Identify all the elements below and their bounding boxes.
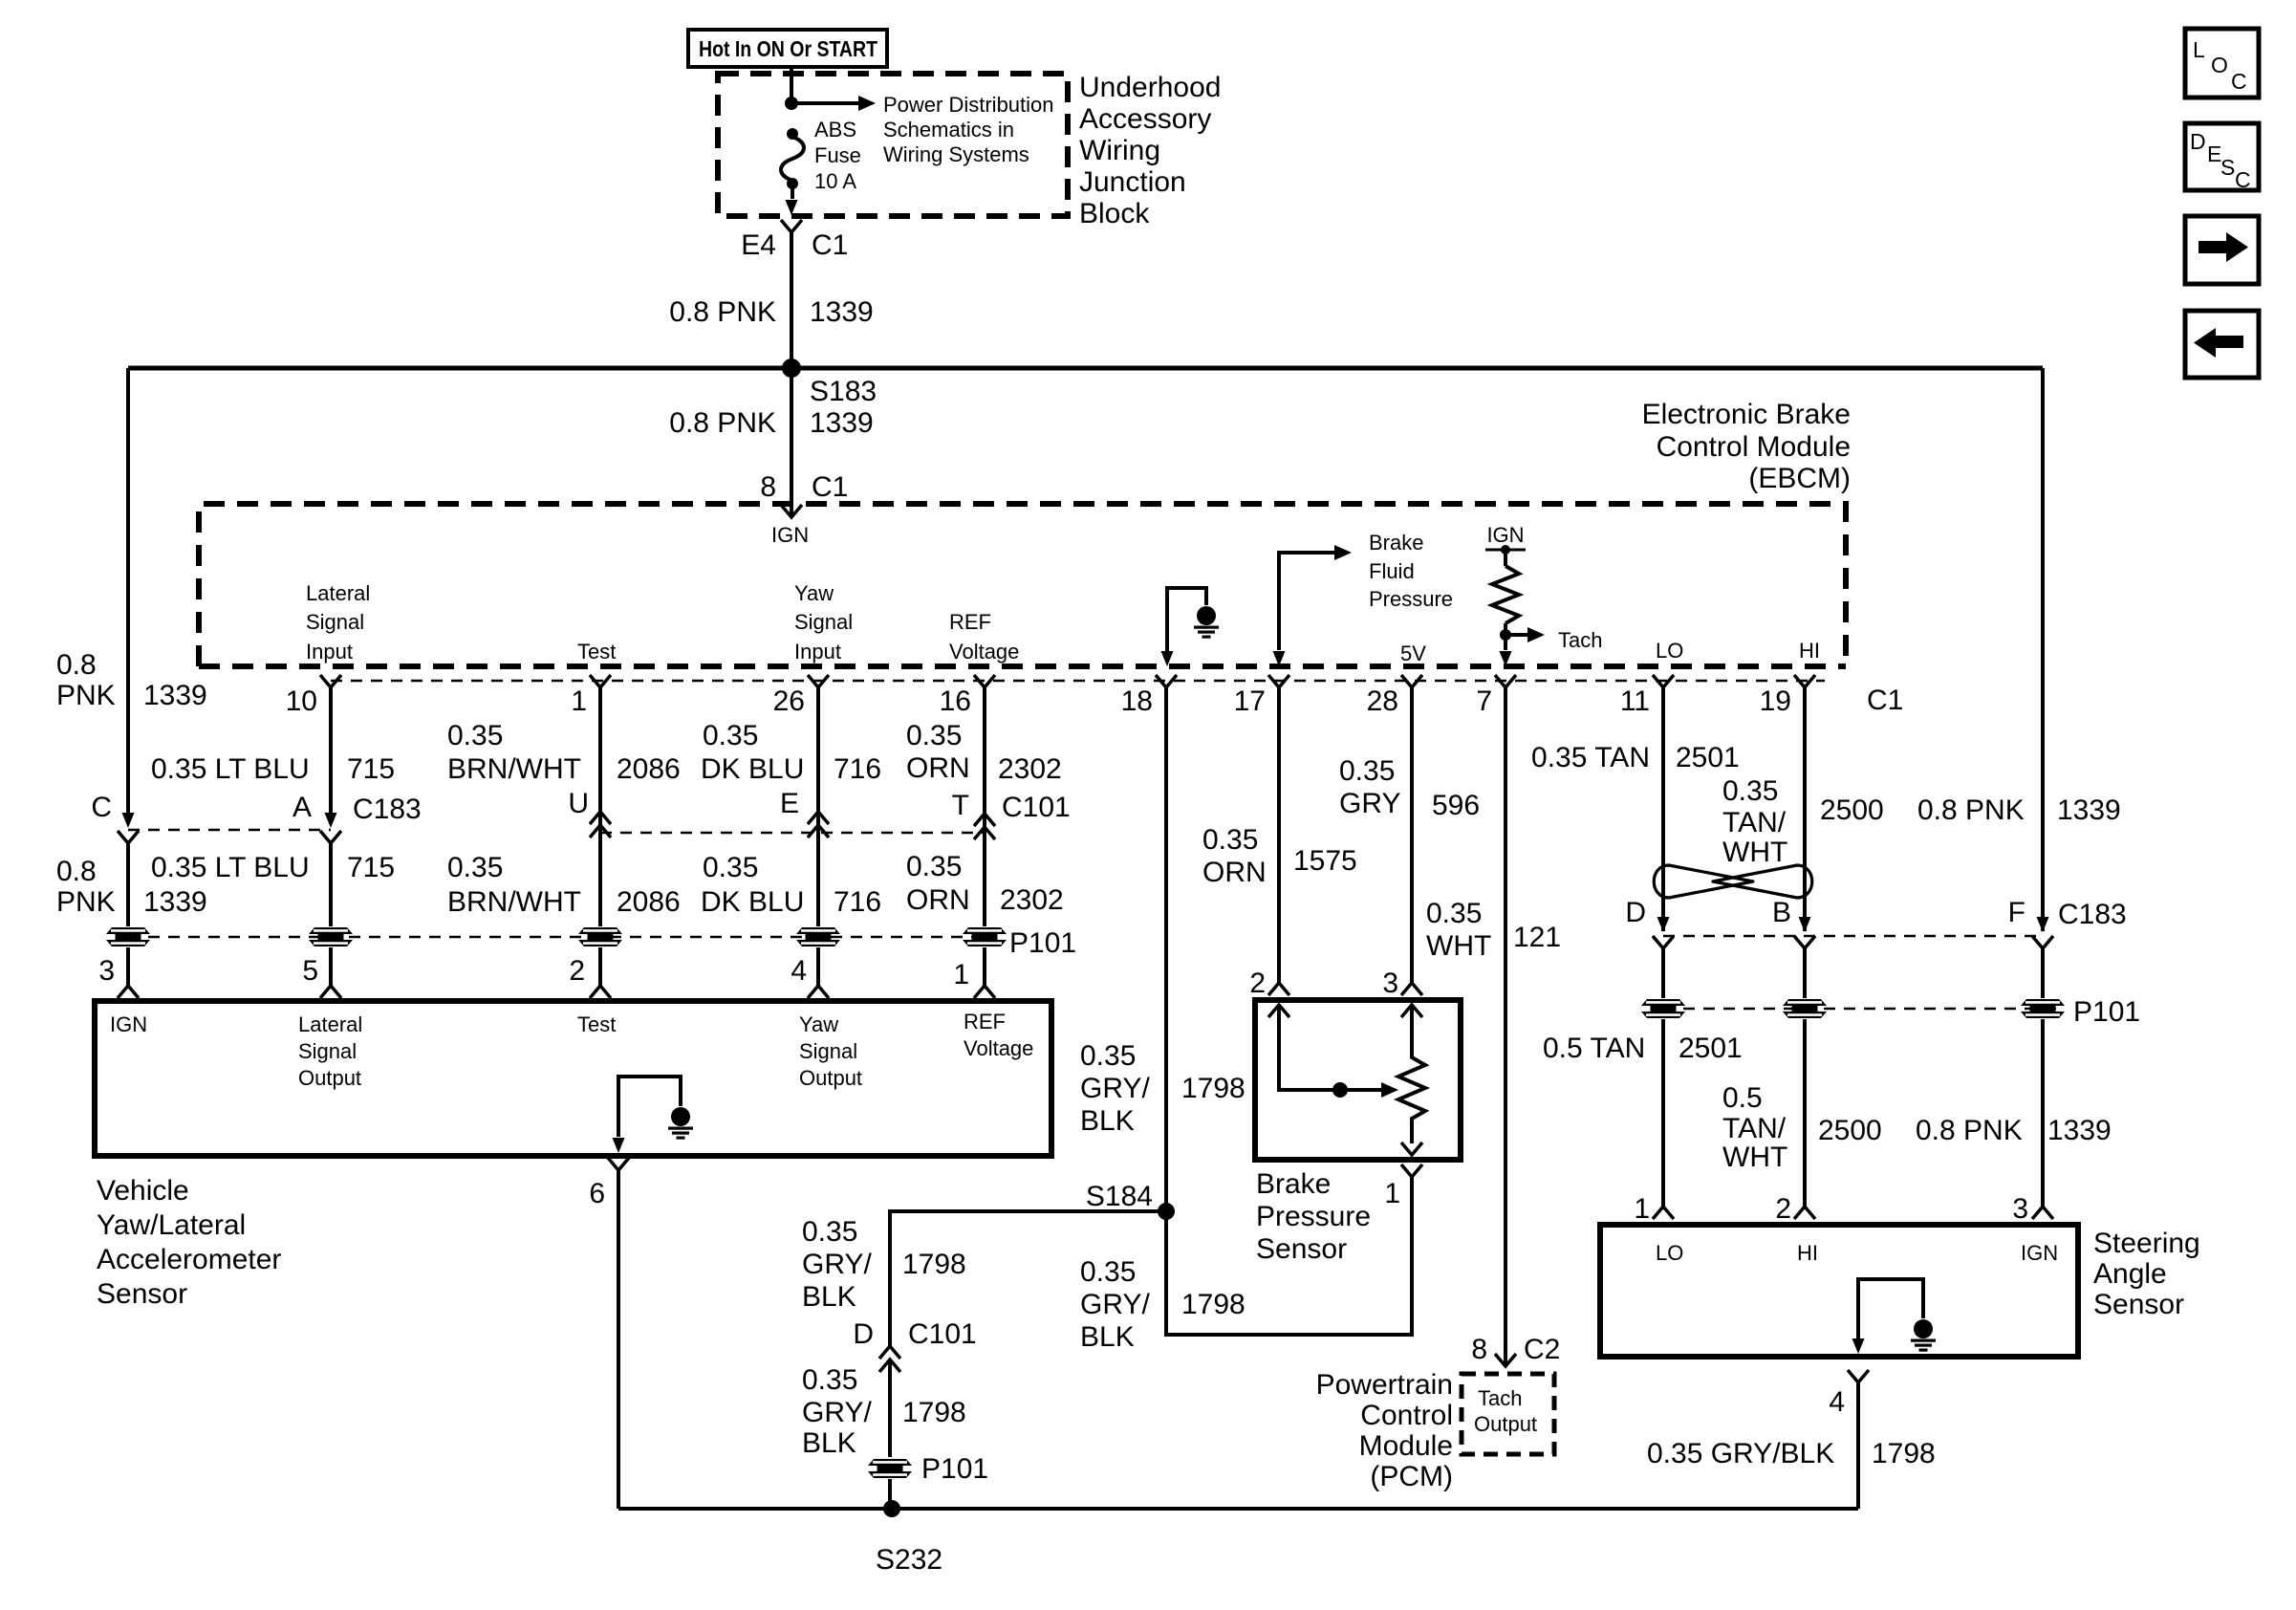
svg-text:P101: P101 <box>1009 927 1076 959</box>
svg-text:2: 2 <box>1249 968 1266 999</box>
node S183 bus wire <box>128 366 2043 371</box>
svg-text:Output: Output <box>799 1066 862 1090</box>
sensor internal label Yaw Signal Output <box>799 1012 862 1090</box>
connector C183 pin A arrow <box>320 813 341 843</box>
svg-text:ORN: ORN <box>906 884 970 916</box>
icon box back arrow <box>2185 311 2259 378</box>
connector C101 dashed line <box>600 832 985 835</box>
PCM Tach Output dashed box <box>1462 1374 1554 1454</box>
svg-text:PNK: PNK <box>56 886 116 918</box>
svg-text:0.5 TAN: 0.5 TAN <box>1543 1033 1645 1064</box>
svg-text:1339: 1339 <box>2057 794 2121 826</box>
svg-text:596: 596 <box>1432 790 1480 821</box>
svg-text:Accelerometer: Accelerometer <box>97 1244 281 1275</box>
svg-text:Brake: Brake <box>1369 531 1423 555</box>
svg-text:0.35: 0.35 <box>703 720 758 751</box>
svg-text:1575: 1575 <box>1293 845 1357 877</box>
svg-text:Yaw: Yaw <box>799 1012 838 1036</box>
grommet P101 on LT BLU wire <box>309 927 353 946</box>
svg-text:2501: 2501 <box>1679 1033 1743 1064</box>
grommet P101 dashed line right <box>1663 1008 2065 1011</box>
sensor internal label REF Voltage <box>964 1010 1033 1060</box>
svg-text:S184: S184 <box>1086 1181 1153 1212</box>
svg-text:D: D <box>2190 129 2206 154</box>
svg-text:1798: 1798 <box>1181 1073 1245 1104</box>
wire 0.35 ORN 2302 from EBCM pin 16 to C101 <box>906 687 1062 926</box>
svg-text:7: 7 <box>1476 685 1492 717</box>
wire 0.8 PNK 1339 from C183 to P101 <box>56 843 207 926</box>
svg-text:0.8: 0.8 <box>56 856 97 887</box>
label 0.35 GRY/BLK 1798 upper on branch <box>802 1216 966 1313</box>
svg-text:HI: HI <box>1799 639 1820 663</box>
svg-text:C101: C101 <box>1002 792 1071 823</box>
svg-text:Sensor: Sensor <box>1256 1233 1347 1265</box>
svg-text:Signal: Signal <box>298 1039 357 1063</box>
svg-text:1: 1 <box>953 959 969 990</box>
fuse: ABS Fuse 10 A <box>781 118 861 193</box>
svg-text:WHT: WHT <box>1722 1142 1787 1173</box>
svg-text:S: S <box>2220 155 2235 180</box>
svg-text:0.35: 0.35 <box>447 720 503 751</box>
icon box forward arrow <box>2185 216 2259 284</box>
wire 0.35 ORN 1575 from EBCM pin 17 to brake pressure sensor pin 2 <box>1202 687 1357 985</box>
svg-text:17: 17 <box>1234 685 1266 717</box>
svg-text:2: 2 <box>569 955 585 987</box>
wire 0.35 GRY/BLK 1798 from steering pin 4 to S232 <box>1647 1382 1936 1509</box>
svg-text:WHT: WHT <box>1722 837 1787 868</box>
svg-text:Output: Output <box>298 1066 361 1090</box>
svg-text:D: D <box>1625 897 1646 928</box>
svg-text:2086: 2086 <box>617 886 681 918</box>
grommet P101 on GRY/BLK wire <box>868 1453 988 1485</box>
sensor internal ground wire <box>613 1077 694 1153</box>
wire 0.8 PNK 1339 right drop from S183 to C183 pin F <box>1917 368 2121 931</box>
wire 0.35 TAN 2501 from EBCM pin 11 to C183 pin D <box>1531 687 1740 931</box>
svg-text:Module: Module <box>1359 1430 1453 1462</box>
svg-text:C: C <box>2235 167 2251 192</box>
wire from fuse to junction block bottom edge <box>786 186 798 215</box>
Brake Pressure Sensor box <box>1255 1000 1461 1160</box>
brake pressure sensor internal potentiometer <box>1398 1005 1425 1155</box>
connector C183 pin C <box>91 792 139 843</box>
svg-text:ORN: ORN <box>1202 857 1267 888</box>
EBCM pin 17 connector chevron <box>1234 675 1289 717</box>
svg-text:C2: C2 <box>1524 1334 1560 1365</box>
EBCM pin 16 connector chevron <box>940 675 995 717</box>
svg-text:1798: 1798 <box>1872 1438 1936 1469</box>
svg-text:C1: C1 <box>812 471 848 503</box>
grommet P101 on TAN/WHT wire <box>1783 948 1827 1018</box>
svg-text:Voltage: Voltage <box>949 640 1019 664</box>
sensor pin 1 wire <box>953 947 995 998</box>
svg-text:10 A: 10 A <box>814 169 856 193</box>
svg-text:IGN: IGN <box>1486 523 1524 547</box>
label: Electronic Brake Control Module (EBCM) <box>1642 399 1851 494</box>
svg-text:BLK: BLK <box>1080 1321 1135 1353</box>
svg-text:Input: Input <box>306 640 353 664</box>
svg-text:4: 4 <box>1829 1386 1845 1418</box>
svg-text:Signal: Signal <box>306 610 364 634</box>
svg-text:0.35: 0.35 <box>703 852 758 883</box>
svg-text:716: 716 <box>834 886 881 918</box>
wire 0.35 DK BLU 716 from C101 to P101 <box>701 852 881 918</box>
wire 0.35 LT BLU 715 from EBCM pin 10 to C183 pin A <box>151 687 395 813</box>
svg-text:26: 26 <box>773 685 805 717</box>
svg-text:8: 8 <box>760 471 776 503</box>
EBCM internal label: Yaw Signal Input <box>794 581 853 664</box>
svg-text:Vehicle: Vehicle <box>97 1175 189 1207</box>
svg-text:Lateral: Lateral <box>298 1012 362 1036</box>
svg-text:Hot In ON Or START: Hot In ON Or START <box>699 36 877 61</box>
svg-text:3: 3 <box>98 955 115 987</box>
svg-text:Tach: Tach <box>1478 1386 1522 1410</box>
sensor pin 6 <box>589 1158 629 1209</box>
svg-text:Control Module: Control Module <box>1657 431 1851 463</box>
wire from sensor pin 6 to S232 <box>617 1170 620 1509</box>
junction dot S183 <box>782 359 877 407</box>
svg-text:(EBCM): (EBCM) <box>1748 463 1851 494</box>
svg-text:0.35: 0.35 <box>906 720 962 751</box>
svg-text:10: 10 <box>286 685 317 717</box>
svg-text:L: L <box>2193 37 2205 62</box>
connector C101 pin U <box>568 788 611 838</box>
brake pressure sensor pin 1 <box>1384 1164 1422 1209</box>
svg-text:0.35: 0.35 <box>447 852 503 883</box>
svg-text:C: C <box>2231 69 2247 94</box>
svg-text:1798: 1798 <box>902 1249 966 1280</box>
svg-text:F: F <box>2008 897 2025 928</box>
svg-text:4: 4 <box>791 955 807 987</box>
sensor internal label Lateral Signal Output <box>298 1012 362 1090</box>
svg-text:B: B <box>1772 897 1791 928</box>
svg-text:Test: Test <box>577 640 616 664</box>
svg-text:5: 5 <box>302 955 318 987</box>
svg-text:BLK: BLK <box>1080 1105 1135 1137</box>
label: Brake Pressure Sensor <box>1256 1168 1371 1265</box>
EBCM pin 26 connector chevron <box>773 675 829 717</box>
svg-text:S232: S232 <box>876 1544 942 1576</box>
svg-text:LO: LO <box>1656 639 1683 663</box>
brake pressure sensor pin 2 <box>1249 968 1289 999</box>
svg-text:Junction: Junction <box>1079 166 1186 198</box>
svg-text:Pressure: Pressure <box>1369 587 1453 611</box>
svg-text:Wiring Systems: Wiring Systems <box>883 142 1029 166</box>
svg-text:1: 1 <box>1384 1178 1400 1209</box>
label C183 at pin A <box>292 792 422 825</box>
svg-text:Steering: Steering <box>2093 1228 2200 1259</box>
svg-text:1798: 1798 <box>902 1397 966 1428</box>
svg-text:DK BLU: DK BLU <box>701 753 804 785</box>
svg-text:Lateral: Lateral <box>306 581 370 605</box>
wire S184 branch to C101 pin D <box>890 1211 1166 1348</box>
svg-text:Control: Control <box>1360 1400 1453 1431</box>
svg-text:19: 19 <box>1760 685 1791 717</box>
svg-text:Sensor: Sensor <box>2093 1289 2184 1320</box>
svg-text:U: U <box>568 788 589 819</box>
svg-text:1339: 1339 <box>143 680 207 711</box>
svg-text:1339: 1339 <box>810 407 874 439</box>
label: Power Distribution Schematics in Wiring Systems <box>883 93 1054 166</box>
svg-text:0.8 PNK: 0.8 PNK <box>1916 1115 2023 1146</box>
svg-text:IGN: IGN <box>2021 1241 2058 1265</box>
EBCM internal ground at pin 18 <box>1161 588 1220 666</box>
svg-text:Wiring: Wiring <box>1079 135 1160 166</box>
EBCM internal label: REF Voltage <box>949 610 1019 664</box>
wire 0.8 PNK 1339 from junction block to S183 <box>669 232 873 368</box>
svg-text:Signal: Signal <box>794 610 853 634</box>
svg-text:BRN/WHT: BRN/WHT <box>447 886 581 918</box>
wire 0.35 TAN/WHT 2500 from EBCM pin 19 to C183 pin B <box>1722 687 1884 931</box>
svg-text:Yaw: Yaw <box>794 581 834 605</box>
power feed box: Hot In ON Or START <box>688 30 887 67</box>
steering internal ground <box>1852 1279 1937 1354</box>
svg-text:REF: REF <box>949 610 991 634</box>
svg-text:ABS: ABS <box>814 118 856 141</box>
sensor pin 2 wire <box>569 947 611 998</box>
wire 0.35 GRY/BLK 1798 from EBCM pin 18 to S184 <box>1080 687 1245 1211</box>
Underhood Accessory Wiring Junction Block dashed box <box>718 74 1068 216</box>
PCM pin 8 C2 <box>1471 1334 1560 1366</box>
svg-text:715: 715 <box>347 852 395 883</box>
svg-text:A: A <box>292 792 312 823</box>
svg-text:Voltage: Voltage <box>964 1036 1033 1060</box>
svg-text:Fuse: Fuse <box>814 143 861 167</box>
EBCM internal IGN pull-up resistor and Tach arrow at pin 7 <box>1485 523 1602 666</box>
svg-text:BLK: BLK <box>802 1427 856 1459</box>
svg-text:TAN/: TAN/ <box>1722 807 1787 838</box>
connector C101 pin E <box>780 788 829 838</box>
svg-text:Electronic Brake: Electronic Brake <box>1642 399 1851 430</box>
svg-text:PNK: PNK <box>56 680 116 711</box>
svg-text:0.35: 0.35 <box>1080 1256 1136 1288</box>
grommet P101 on ORN wire <box>963 927 1007 946</box>
svg-text:DK BLU: DK BLU <box>701 886 804 918</box>
svg-text:C183: C183 <box>353 794 422 825</box>
svg-text:IGN: IGN <box>110 1012 147 1036</box>
wire 0.35 LT BLU 715 from C183 to P101 <box>151 843 395 926</box>
wire from Hot box into junction block <box>790 67 793 107</box>
svg-text:Test: Test <box>577 1012 616 1036</box>
EBCM pin 10 connector chevron <box>286 675 341 717</box>
svg-text:1: 1 <box>571 685 587 717</box>
EBCM pin 1 connector chevron <box>571 675 611 717</box>
svg-text:Input: Input <box>794 640 841 664</box>
grommet P101 on PNK wire <box>106 927 150 946</box>
Electronic Brake Control Module EBCM dashed box <box>199 504 1846 666</box>
svg-text:(PCM): (PCM) <box>1370 1461 1453 1492</box>
label: Vehicle Yaw/Lateral Accelerometer Sensor <box>97 1175 281 1310</box>
svg-text:Underhood: Underhood <box>1079 72 1221 103</box>
svg-text:T: T <box>952 790 969 821</box>
svg-text:11: 11 <box>1620 685 1650 717</box>
svg-text:1798: 1798 <box>1181 1289 1245 1320</box>
wire 0.35 BRN/WHT 2086 from EBCM pin 1 to C101 <box>447 687 681 926</box>
svg-text:Powertrain: Powertrain <box>1316 1369 1453 1401</box>
svg-text:0.35 GRY/BLK: 0.35 GRY/BLK <box>1647 1438 1834 1469</box>
grommet P101 on DK BLU wire <box>796 927 840 946</box>
svg-text:GRY/: GRY/ <box>1080 1289 1150 1320</box>
wire 0.35 GRY 596 from EBCM pin 28 to brake pressure sensor pin 3 <box>1339 687 1480 985</box>
svg-text:REF: REF <box>964 1010 1006 1033</box>
svg-text:28: 28 <box>1367 685 1398 717</box>
svg-text:716: 716 <box>834 753 881 785</box>
arrow to Power Distribution Schematics <box>791 96 876 111</box>
junction dot S232 <box>876 1500 942 1576</box>
svg-text:0.35 LT BLU: 0.35 LT BLU <box>151 753 310 785</box>
label: Underhood Accessory Wiring Junction Block <box>1079 72 1221 229</box>
svg-text:WHT: WHT <box>1426 930 1491 962</box>
twisted pair symbol LO/HI <box>1654 865 1812 898</box>
svg-text:2500: 2500 <box>1820 794 1884 826</box>
wire 0.35 GRY/BLK 1798 from C101 D to P101 <box>802 1360 966 1459</box>
connector C101 pin T <box>952 790 1071 839</box>
svg-text:Yaw/Lateral: Yaw/Lateral <box>97 1209 246 1241</box>
svg-text:O: O <box>2211 53 2228 77</box>
svg-text:0.8 PNK: 0.8 PNK <box>1917 794 2025 826</box>
svg-text:Sensor: Sensor <box>97 1278 187 1310</box>
svg-text:Accessory: Accessory <box>1079 103 1211 135</box>
svg-text:HI: HI <box>1797 1241 1818 1265</box>
svg-text:Output: Output <box>1474 1412 1537 1436</box>
svg-text:0.35 LT BLU: 0.35 LT BLU <box>151 852 310 883</box>
svg-text:D: D <box>853 1318 874 1350</box>
connector C183 dashed line right <box>1663 935 2043 938</box>
wire 0.8 PNK 1339 left drop from S183 to C183 pin C <box>56 368 207 813</box>
svg-text:GRY/: GRY/ <box>802 1397 872 1428</box>
icon box DESC <box>2185 123 2259 192</box>
svg-text:GRY/: GRY/ <box>1080 1073 1150 1104</box>
EBCM internal arrow: Brake Fluid Pressure from pin 17 <box>1273 545 1353 666</box>
svg-text:0.35: 0.35 <box>1202 824 1258 856</box>
svg-text:Schematics in: Schematics in <box>883 118 1014 141</box>
wire 0.8 PNK 1339 from S183 to EBCM pin 8 <box>669 368 873 517</box>
EBCM pin 7 connector chevron <box>1476 675 1516 717</box>
connector C101 pin D <box>853 1318 976 1372</box>
svg-text:1339: 1339 <box>143 886 207 918</box>
connector C183 pin F <box>2008 897 2127 948</box>
junction dot S184 <box>1086 1181 1175 1220</box>
svg-text:0.35: 0.35 <box>1339 755 1395 787</box>
svg-text:Block: Block <box>1079 198 1150 229</box>
svg-text:1339: 1339 <box>810 296 874 328</box>
Steering Angle Sensor box <box>1600 1225 2078 1357</box>
EBCM pin 11 connector chevron <box>1620 675 1674 717</box>
wire 0.5 TAN 2501 from P101 to steering sensor pin 1 <box>1543 1019 1743 1225</box>
wire 0.5 TAN/WHT 2500 from P101 to steering sensor pin 2 <box>1722 1019 1882 1225</box>
svg-text:3: 3 <box>2012 1193 2028 1225</box>
svg-text:0.8 PNK: 0.8 PNK <box>669 296 776 328</box>
svg-text:GRY/: GRY/ <box>802 1249 872 1280</box>
svg-text:GRY: GRY <box>1339 788 1400 819</box>
svg-text:Signal: Signal <box>799 1039 857 1063</box>
svg-text:Fluid: Fluid <box>1369 559 1415 583</box>
svg-text:0.35: 0.35 <box>1426 898 1482 929</box>
svg-text:18: 18 <box>1121 685 1153 717</box>
svg-text:0.8 PNK: 0.8 PNK <box>669 407 776 439</box>
svg-text:2: 2 <box>1775 1193 1791 1225</box>
svg-text:P101: P101 <box>921 1453 988 1485</box>
wire 0.8 PNK 1339 from P101 to steering sensor pin 3 <box>1916 1019 2112 1225</box>
svg-text:1: 1 <box>1634 1193 1650 1225</box>
svg-text:715: 715 <box>347 753 395 785</box>
svg-text:LO: LO <box>1656 1241 1683 1265</box>
svg-text:0.35 TAN: 0.35 TAN <box>1531 742 1650 773</box>
svg-text:E: E <box>780 788 799 819</box>
connector C183 pin D right <box>1625 897 1674 948</box>
svg-text:ORN: ORN <box>906 752 970 784</box>
svg-text:S183: S183 <box>810 376 877 407</box>
svg-text:2500: 2500 <box>1818 1115 1882 1146</box>
connector pin E4/C1 leaving junction block <box>741 220 848 261</box>
wire 0.35 ORN 2302 from C101 to P101 <box>906 851 1064 916</box>
junction dot feeding power distribution arrow <box>785 97 798 110</box>
svg-text:2501: 2501 <box>1676 742 1740 773</box>
wire 0.35 WHT 121 from EBCM pin 7 to PCM Tach Output <box>1426 687 1561 1366</box>
svg-text:Brake: Brake <box>1256 1168 1331 1200</box>
svg-text:Tach: Tach <box>1558 628 1602 652</box>
EBCM pin 28 connector chevron <box>1367 675 1422 717</box>
label: Steering Angle Sensor <box>2093 1228 2200 1320</box>
svg-text:C101: C101 <box>908 1318 977 1350</box>
wire 0.35 BRN/WHT 2086 from C101 to P101 <box>447 852 681 918</box>
svg-text:8: 8 <box>1471 1334 1487 1365</box>
svg-text:E4: E4 <box>741 229 776 261</box>
EBCM C1 connector dashed line <box>331 681 1903 716</box>
label: Brake Fluid Pressure <box>1369 531 1453 611</box>
svg-text:16: 16 <box>940 685 971 717</box>
svg-text:0.35: 0.35 <box>1080 1040 1136 1072</box>
svg-text:2302: 2302 <box>998 753 1062 785</box>
svg-text:BLK: BLK <box>802 1281 856 1313</box>
svg-text:3: 3 <box>1382 968 1398 999</box>
node S232 bus wire <box>618 1507 1858 1511</box>
pin 8 C1 into EBCM <box>760 471 848 547</box>
svg-text:2302: 2302 <box>1000 884 1064 916</box>
svg-text:C1: C1 <box>1867 685 1903 716</box>
svg-text:0.35: 0.35 <box>906 851 962 882</box>
sensor pin 4 wire <box>791 947 829 998</box>
label: Tach Output <box>1474 1386 1537 1436</box>
wire 0.35 DK BLU 716 from EBCM pin 26 to C101 <box>701 687 881 926</box>
label: Powertrain Control Module (PCM) <box>1316 1369 1453 1492</box>
grommet P101 dashed line left <box>128 936 997 939</box>
svg-text:P101: P101 <box>2073 996 2140 1028</box>
steering sensor pin 4 <box>1829 1370 1869 1418</box>
svg-text:Angle: Angle <box>2093 1258 2167 1290</box>
svg-text:C1: C1 <box>812 229 848 261</box>
svg-text:BRN/WHT: BRN/WHT <box>447 753 581 785</box>
wire 0.35 GRY/BLK 1798 from S184 to brake pressure sensor pin 1 <box>1080 1177 1412 1353</box>
svg-text:TAN/: TAN/ <box>1722 1113 1787 1144</box>
brake pressure sensor internal wiper wire <box>1268 1005 1398 1098</box>
svg-text:0.35: 0.35 <box>1722 775 1778 807</box>
svg-text:0.35: 0.35 <box>802 1216 857 1248</box>
EBCM pin 19 connector chevron <box>1760 675 1815 717</box>
svg-text:121: 121 <box>1513 922 1561 953</box>
svg-text:Pressure: Pressure <box>1256 1201 1371 1232</box>
grommet P101 on right PNK wire <box>2021 948 2140 1028</box>
connector C183 dashed line left <box>128 829 331 832</box>
brake pressure sensor pin 3 <box>1382 968 1422 999</box>
EBCM pin 18 connector chevron <box>1121 675 1177 717</box>
svg-text:0.35: 0.35 <box>802 1364 857 1396</box>
grommet P101 on TAN wire <box>1641 948 1685 1018</box>
svg-text:0.5: 0.5 <box>1722 1082 1763 1114</box>
svg-text:C: C <box>91 792 112 823</box>
svg-text:0.8: 0.8 <box>56 649 97 681</box>
grommet P101 on BRN/WHT wire <box>578 927 622 946</box>
connector C183 pin B <box>1772 897 1815 948</box>
